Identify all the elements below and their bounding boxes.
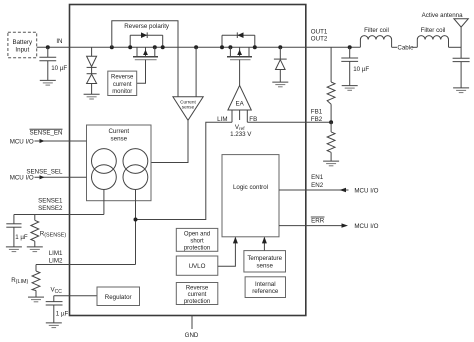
ground (D5)	[272, 82, 288, 87]
label Vref 1.233 V	[230, 124, 252, 138]
clamp diode D1	[87, 47, 97, 67]
block Internal reference	[245, 277, 285, 298]
svg-text:1 µF: 1 µF	[15, 234, 28, 241]
wire Q1 gate to monitor	[137, 60, 146, 84]
op-amp current sense amplifier	[173, 97, 203, 121]
svg-text:Reverse: Reverse	[186, 285, 209, 291]
svg-text:OUT2: OUT2	[311, 36, 328, 43]
svg-text:current: current	[188, 292, 207, 298]
svg-text:SENSE_EN: SENSE_EN	[29, 130, 62, 137]
diode D3 (M1 body diode)	[141, 32, 147, 38]
pin FB stub	[246, 110, 248, 122]
node IN junction	[46, 45, 50, 49]
node dots M2	[220, 45, 224, 49]
transistor Q1 reverse polarity FET	[133, 47, 158, 59]
resistor R(LIM)	[11, 265, 40, 298]
ground (input cap)	[40, 80, 56, 85]
node output junction	[348, 45, 352, 49]
svg-text:reference: reference	[252, 288, 279, 295]
svg-text:protection: protection	[184, 245, 210, 251]
wire current-sense output	[151, 120, 188, 162]
wire EN net with arrow	[279, 187, 379, 194]
wire UVLO to logic control	[218, 238, 236, 267]
diode D5 to ground	[274, 47, 287, 82]
wire M1 body-diode loop	[130, 34, 163, 36]
node LIM junction	[134, 218, 138, 222]
pin FB1 FB2	[311, 109, 323, 123]
ground (sense cap)	[6, 247, 22, 252]
wire LIM rail	[36, 264, 136, 266]
block Temperature sense	[244, 251, 286, 272]
pin SENSE_EN	[10, 129, 87, 145]
svg-text:OUT1: OUT1	[311, 28, 328, 35]
svg-text:sense: sense	[182, 105, 195, 110]
wire sense tap right	[195, 47, 197, 97]
svg-text:Filter coil: Filter coil	[364, 27, 389, 34]
svg-text:MCU I/O: MCU I/O	[10, 175, 34, 182]
svg-text:Filter coil: Filter coil	[421, 27, 446, 34]
ground (clamp diodes)	[84, 94, 100, 99]
node dots M1	[128, 45, 132, 49]
wire coil 2 to antenna	[449, 46, 462, 48]
wire to cable	[392, 46, 397, 48]
svg-text:EN2: EN2	[311, 182, 324, 189]
block Open and short protection	[176, 228, 218, 251]
diode D4 (M2 body diode)	[237, 32, 243, 38]
ground (VCC cap)	[46, 323, 62, 328]
svg-text:ERR: ERR	[311, 217, 325, 224]
svg-text:IN: IN	[56, 38, 62, 45]
svg-text:EA: EA	[235, 101, 244, 108]
svg-text:10 µF: 10 µF	[353, 66, 369, 73]
wire right mirror down	[135, 190, 137, 265]
capacitor C2 10 uF output	[341, 47, 369, 85]
ground (antenna cap)	[453, 88, 469, 93]
current mirror circles	[92, 149, 148, 190]
svg-text:short: short	[190, 238, 204, 244]
block Regulator	[97, 287, 140, 306]
pin SENSE_SEL	[10, 168, 87, 181]
svg-text:MCU I/O: MCU I/O	[354, 187, 378, 194]
svg-text:sense: sense	[111, 135, 128, 142]
svg-text:MCU I/O: MCU I/O	[10, 139, 34, 146]
svg-text:Active antenna: Active antenna	[422, 12, 463, 19]
block Reverse current monitor	[108, 71, 137, 95]
svg-text:1 µF: 1 µF	[56, 310, 69, 317]
capacitor 1 uF (sense)	[6, 215, 28, 247]
inductor L2 filter coil	[417, 27, 448, 47]
svg-text:LIM2: LIM2	[49, 258, 63, 265]
wire left mirror to rail	[103, 190, 105, 215]
pin GND	[185, 316, 199, 339]
capacitor C1 10 uF input	[39, 47, 67, 80]
svg-text:R(SENSE): R(SENSE)	[40, 230, 67, 238]
svg-text:Battery: Battery	[12, 39, 33, 46]
svg-text:EN1: EN1	[311, 174, 324, 181]
clamp diode D2	[87, 67, 97, 94]
svg-text:sense: sense	[256, 262, 273, 269]
antenna symbol	[422, 12, 469, 58]
svg-text:monitor: monitor	[112, 89, 132, 95]
block UVLO	[176, 256, 218, 275]
svg-text:Reverse: Reverse	[111, 75, 134, 81]
svg-text:Internal: Internal	[255, 281, 276, 288]
block Reverse current protection	[176, 283, 218, 306]
svg-text:R(LIM): R(LIM)	[11, 277, 28, 285]
wire sense rail	[14, 214, 104, 216]
svg-text:GND: GND	[185, 332, 199, 339]
svg-text:FB1: FB1	[311, 109, 323, 116]
wire main rail	[37, 46, 361, 48]
block Logic control	[222, 155, 279, 237]
node FB junction	[329, 120, 333, 124]
svg-text:Reverse polarity: Reverse polarity	[124, 23, 170, 30]
capacitor 1 uF (VCC)	[46, 296, 69, 323]
svg-text:SENSE1: SENSE1	[38, 198, 63, 205]
svg-text:LIM1: LIM1	[49, 250, 63, 257]
pin ERR	[311, 217, 325, 224]
battery input box	[8, 32, 37, 58]
svg-text:MCU I/O: MCU I/O	[354, 223, 378, 230]
svg-text:Regulator: Regulator	[105, 294, 132, 301]
ground (feedback divider)	[323, 161, 339, 166]
svg-text:10 µF: 10 µF	[51, 65, 67, 72]
wire ERR net with arrow	[279, 223, 379, 230]
wire cable to coil 2	[413, 46, 417, 48]
op-amp EA error amplifier	[228, 85, 251, 110]
pin EN1 EN2	[311, 174, 324, 189]
pin LIM stub	[231, 110, 233, 122]
ground (R sense)	[27, 247, 43, 252]
pin OUT1 OUT2	[311, 28, 328, 42]
svg-text:protection: protection	[184, 299, 210, 305]
svg-text:Current: Current	[108, 128, 129, 135]
wire temperature sense to logic control	[263, 238, 265, 251]
svg-text:current: current	[113, 82, 132, 88]
wire LIM net	[136, 122, 233, 219]
wire FB net	[247, 121, 331, 123]
svg-text:1.233 V: 1.233 V	[230, 131, 252, 138]
resistor R1 feedback upper	[327, 47, 335, 122]
wire VCC rail	[54, 295, 97, 297]
svg-text:Temperature: Temperature	[247, 255, 282, 262]
transistor Q2 output FET	[227, 47, 252, 59]
wire Q2 gate to EA	[239, 60, 241, 86]
ground (R lim)	[28, 297, 44, 302]
svg-text:Open and: Open and	[184, 231, 210, 237]
resistor R(SENSE)	[31, 215, 66, 247]
svg-text:UVLO: UVLO	[189, 263, 206, 270]
svg-text:SENSE2: SENSE2	[38, 205, 63, 212]
block Current sense (mirrors)	[87, 125, 152, 201]
ground (output cap)	[342, 86, 358, 91]
wire reverse-polarity sense loop	[112, 21, 178, 97]
pin LIM1 LIM2	[49, 250, 63, 264]
inductor L1 filter coil	[360, 27, 391, 47]
IC boundary box	[70, 5, 306, 316]
pin Vref stub	[239, 110, 241, 120]
capacitor antenna	[453, 58, 470, 88]
node D5 tap	[278, 45, 282, 49]
svg-text:FB2: FB2	[311, 116, 323, 123]
svg-text:Logic control: Logic control	[233, 184, 268, 191]
node sense tap right	[194, 45, 198, 49]
resistor R2 feedback lower	[327, 122, 335, 161]
wire M2 body-diode loop	[222, 34, 255, 36]
node A (sense tap left)	[110, 45, 114, 49]
pin SENSE1 SENSE2	[38, 198, 63, 212]
svg-text:Input: Input	[15, 47, 29, 54]
svg-text:Cable: Cable	[397, 45, 414, 52]
